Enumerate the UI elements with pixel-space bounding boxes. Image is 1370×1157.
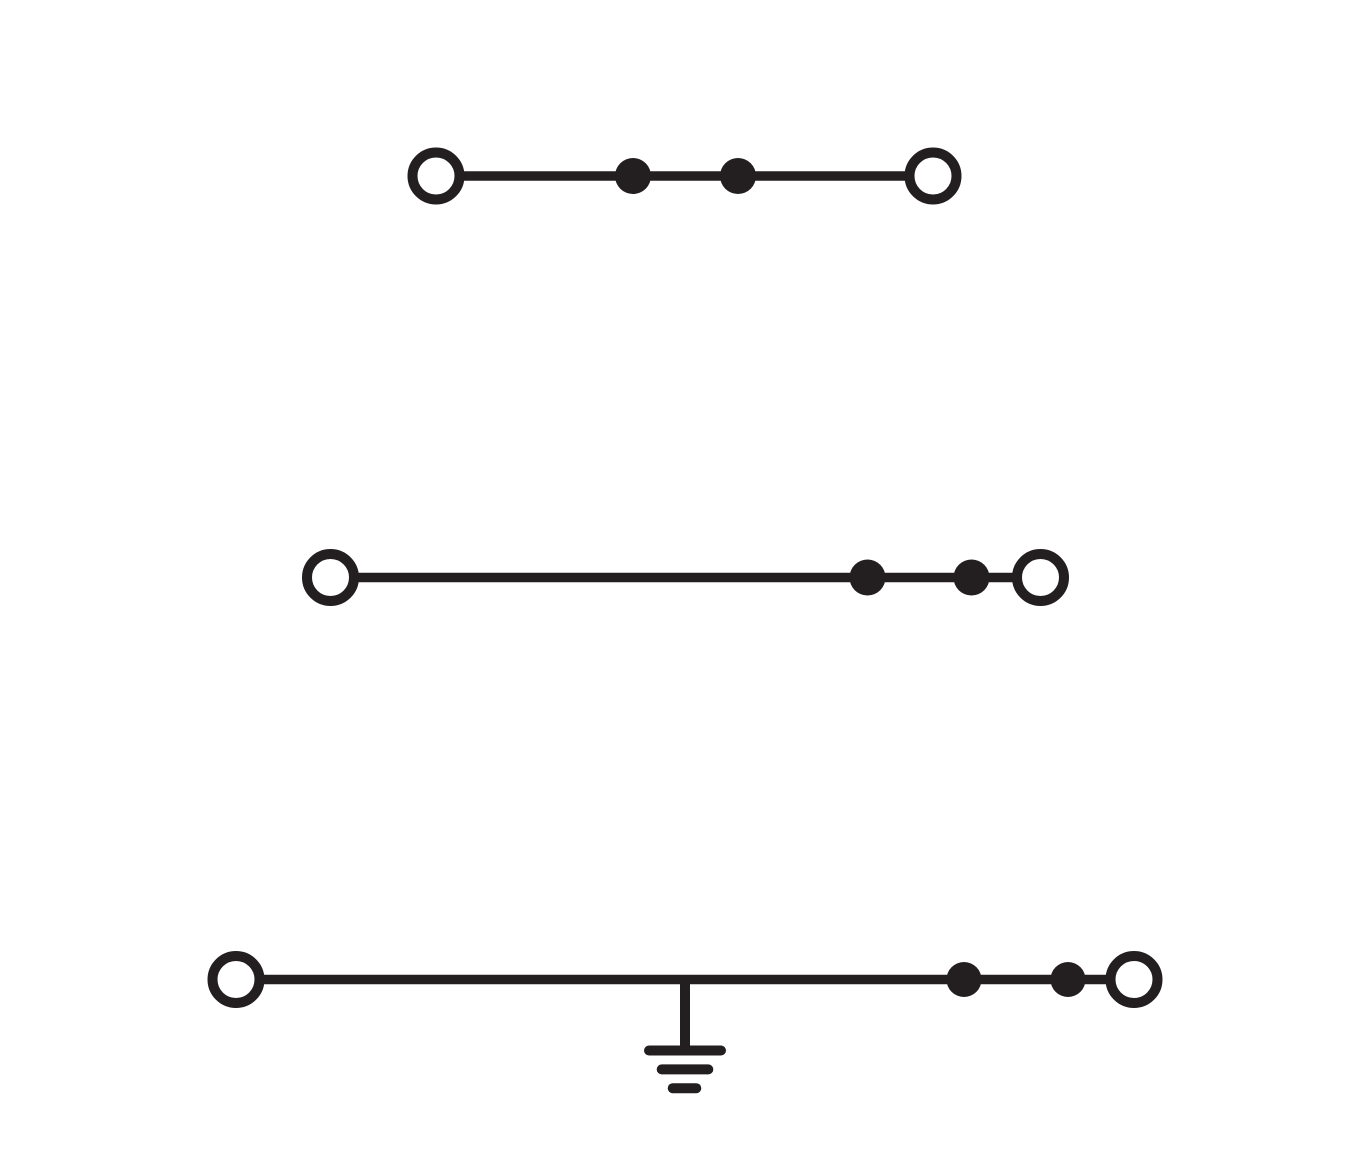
terminal 3.1 (level 3, left wire-entry circle) [213, 956, 260, 1003]
terminal 2.2 (level 2, right wire-entry circle) [1017, 554, 1064, 601]
junction dot (level 2, left clamp point) [850, 560, 886, 596]
terminal 1.1 (level 1, left wire-entry circle) [413, 153, 460, 200]
junction dot (level 3, left clamp point) [947, 962, 982, 997]
junction dot (level 2, right clamp point) [954, 560, 990, 596]
wire (level 2 conductor bus) [331, 573, 1041, 583]
wire (level 3 conductor bus, PE) [236, 975, 1134, 985]
terminal 2.1 (level 2, left wire-entry circle) [307, 554, 354, 601]
junction dot (level 3, right clamp point) [1051, 962, 1086, 997]
junction dot (level 1, left clamp point) [615, 158, 651, 194]
wire (level 1 conductor bus) [436, 171, 933, 181]
terminal 3.2 (level 3, right wire-entry circle) [1111, 956, 1158, 1003]
terminal 1.2 (level 1, right wire-entry circle) [910, 153, 957, 200]
ground (PE earth symbol) [649, 980, 721, 1089]
junction dot (level 1, right clamp point) [720, 158, 756, 194]
